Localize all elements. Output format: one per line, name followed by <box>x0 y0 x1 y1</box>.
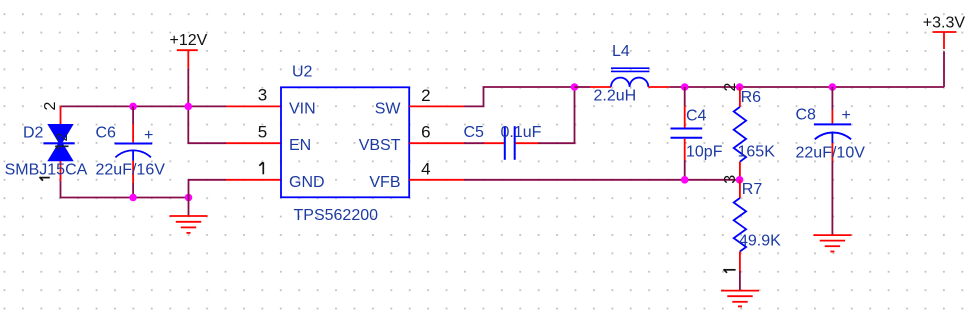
svg-text:2: 2 <box>421 86 430 105</box>
op-amp U2 TPS562200 body <box>281 64 409 224</box>
svg-text:0.1uF: 0.1uF <box>501 124 542 141</box>
ground C8 <box>813 235 851 251</box>
pin EN 5 <box>226 142 281 144</box>
capacitor C8 22uF/10V <box>796 87 866 235</box>
pin SW 2 <box>409 105 464 107</box>
svg-text:C4: C4 <box>686 108 707 125</box>
svg-text:+: + <box>842 107 851 124</box>
node junction C6 bottom <box>129 194 137 202</box>
svg-text:SMBJ15CA: SMBJ15CA <box>5 162 88 179</box>
svg-text:VBST: VBST <box>359 137 401 154</box>
svg-text:+: + <box>144 127 153 144</box>
svg-text:49.9K: 49.9K <box>739 233 781 250</box>
node junction +12V <box>185 103 193 111</box>
wire VBST to C5 <box>464 142 484 144</box>
node junction R6 top <box>736 83 744 91</box>
svg-text:VIN: VIN <box>289 100 316 117</box>
pin GND 1 <box>226 179 281 181</box>
node junction C4 bottom <box>681 176 689 184</box>
svg-text:R7: R7 <box>742 181 763 198</box>
svg-text:TPS562200: TPS562200 <box>294 207 379 224</box>
svg-text:L4: L4 <box>612 43 630 60</box>
wire GND branch <box>189 180 227 216</box>
pin VBST 6 <box>409 142 464 144</box>
pin number 1 <box>259 162 263 174</box>
svg-text:3: 3 <box>258 86 267 105</box>
svg-text:U2: U2 <box>292 64 313 81</box>
wire VFB to divider <box>464 179 740 181</box>
ground IC <box>170 216 208 233</box>
svg-text:22uF/16V: 22uF/16V <box>96 162 166 179</box>
capacitor C4 10pF <box>671 87 723 180</box>
svg-text:R6: R6 <box>741 89 762 106</box>
wire VIN rail D2 to VIN pin <box>61 105 227 107</box>
wire EN branch <box>188 106 226 143</box>
svg-text:22uF/10V: 22uF/10V <box>796 145 866 162</box>
svg-text:SW: SW <box>375 100 402 117</box>
resistor R7 49.9K <box>723 180 781 291</box>
capacitor C6 22uF/16V <box>96 106 166 197</box>
power +12V <box>170 32 208 107</box>
svg-text:VFB: VFB <box>369 174 400 191</box>
pin number 1 rotated <box>39 177 49 180</box>
node junction FB <box>736 176 744 184</box>
diode D2 TVS SMBJ15CA <box>5 102 88 181</box>
pin number 1 inner rotated <box>55 146 68 149</box>
pin number 1 rotated <box>723 269 735 272</box>
inductor L4 2.2uH <box>590 43 669 105</box>
svg-text:GND: GND <box>289 174 325 191</box>
ground R7 <box>721 291 759 307</box>
svg-text:6: 6 <box>421 123 430 142</box>
svg-text:+3.3V: +3.3V <box>923 15 966 32</box>
svg-text:EN: EN <box>289 137 311 154</box>
pin VIN 3 <box>226 105 281 107</box>
node junction C6 top <box>129 103 137 111</box>
pin VFB 4 <box>409 179 464 181</box>
svg-text:2: 2 <box>54 133 71 142</box>
capacitor C5 0.1uF <box>464 124 542 160</box>
wire VOUT rail <box>669 86 944 88</box>
svg-text:2: 2 <box>42 102 59 111</box>
node junction C4 top <box>681 83 689 91</box>
node junction SW/VBST <box>571 83 579 91</box>
svg-text:2.2uH: 2.2uH <box>594 88 637 105</box>
wire D2 bottom <box>61 181 189 198</box>
svg-text:4: 4 <box>421 159 430 178</box>
svg-text:2: 2 <box>722 83 739 92</box>
svg-text:5: 5 <box>258 123 267 142</box>
svg-text:D2: D2 <box>23 125 44 142</box>
svg-text:10pF: 10pF <box>686 144 723 161</box>
svg-text:C8: C8 <box>796 107 817 124</box>
node junction GND rail <box>185 194 193 202</box>
svg-text:C6: C6 <box>96 125 117 142</box>
power +3.3V <box>923 15 966 87</box>
wire C5 right riser <box>538 87 575 143</box>
node junction C8 top <box>829 83 837 91</box>
resistor R6 165K <box>722 83 775 184</box>
svg-text:165K: 165K <box>738 144 776 161</box>
wire SW riser <box>464 87 574 106</box>
wire top rail SW to L4 <box>575 86 591 88</box>
svg-text:C5: C5 <box>464 124 485 141</box>
svg-text:+12V: +12V <box>170 32 208 49</box>
